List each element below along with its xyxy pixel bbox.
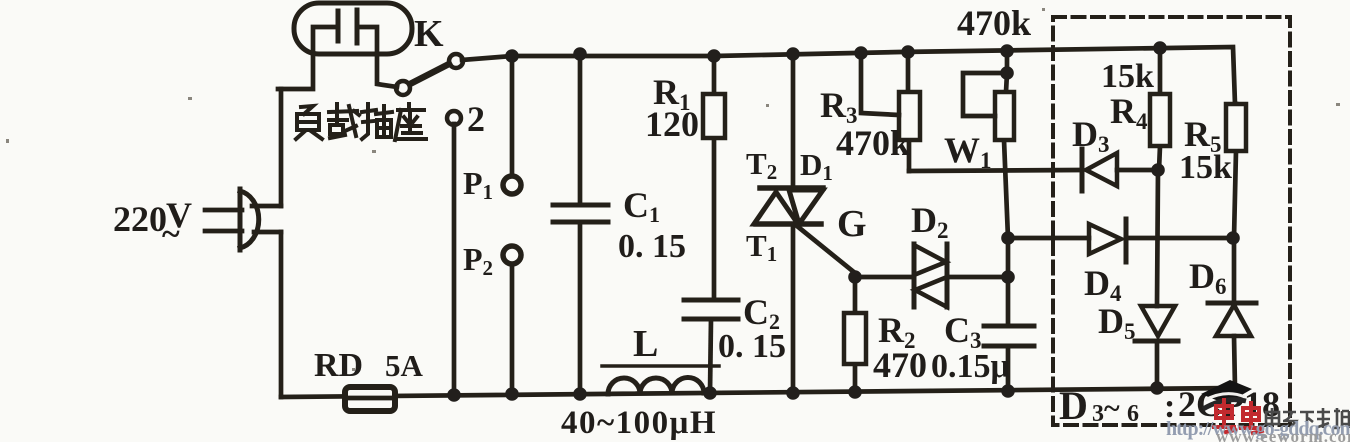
svg-text:5A: 5A (385, 348, 424, 383)
wire: left vertical from socket elbow to plug and plug to bottom bus (279, 89, 284, 397)
watermark logo (black cap) (1201, 380, 1252, 409)
junction R1 top (707, 49, 721, 63)
node D4/R5 (1226, 231, 1240, 245)
junction triac D1 bottom (786, 386, 800, 400)
diode D5 (1135, 306, 1178, 388)
svg-text:220: 220 (113, 199, 167, 239)
svg-text:0. 15: 0. 15 (618, 228, 686, 265)
triac D1 (754, 54, 823, 393)
junction D5 bottom (1150, 381, 1164, 395)
char 插 (362, 104, 392, 139)
resistor R2 (844, 277, 866, 392)
junction P2 / bottom bus (505, 387, 519, 401)
diode D6 (1208, 303, 1256, 388)
wire: R3 wiper tap (861, 53, 899, 115)
svg-text:3: 3 (1092, 401, 1104, 427)
wire: R3 bottom to D3 (909, 170, 1079, 171)
diac D2 (914, 244, 947, 307)
potentiometer W1 (995, 51, 1014, 238)
wire: C3 node down through C3 (1006, 238, 1011, 391)
wire: W1 wiper loop (963, 73, 1007, 116)
wire: P1 drop (510, 56, 515, 176)
svg-text:470k: 470k (836, 123, 910, 163)
svg-text:RD: RD (314, 347, 363, 384)
L underline (602, 364, 719, 368)
junction R3 wiper tap (854, 46, 868, 60)
P1 terminal (503, 176, 521, 194)
capacitor C1 (553, 54, 608, 394)
potentiometer R3 (899, 52, 920, 171)
wire: gate of D1 to R2 node (797, 226, 855, 273)
svg-text:L: L (633, 323, 658, 365)
svg-text:~: ~ (1104, 392, 1120, 425)
svg-text:15k: 15k (1101, 58, 1154, 95)
diode D3 (1082, 149, 1153, 191)
svg-text:2: 2 (467, 99, 485, 139)
wire: R5 to D6 (1232, 238, 1237, 303)
svg-text:470: 470 (873, 345, 927, 385)
junction C2 bottom (703, 386, 717, 400)
inductor L coil (608, 378, 704, 394)
node W1/D4 (1001, 231, 1015, 245)
wire: top bus from switch to dashed box right, down to R5 (462, 47, 1235, 104)
svg-text:~: ~ (162, 216, 180, 253)
svg-text:15k: 15k (1179, 149, 1232, 186)
svg-text:470k: 470k (957, 3, 1031, 43)
junction C1 bottom (573, 387, 587, 401)
junction R2 bottom (848, 385, 862, 399)
text 负载插座 (simulated glyphs) (296, 104, 426, 140)
junction W1 top (1000, 44, 1014, 58)
dashed box (1053, 17, 1290, 425)
resistor R5 (1226, 104, 1246, 238)
junction W1 wiper tie (1000, 66, 1014, 80)
switch K fixed contact (396, 81, 410, 95)
capacitor C3 (984, 326, 1034, 346)
node D2/C3 (1001, 270, 1015, 284)
switch K arm (410, 64, 449, 84)
watermark 电子下载站 (gray, simulated glyphs) (1266, 408, 1349, 428)
svg-text:G: G (837, 203, 867, 245)
wire: D3/R4 node down to D5 (1157, 170, 1158, 306)
socket contact bars (338, 10, 357, 43)
fuse RD (345, 387, 395, 411)
svg-text:0.15μ: 0.15μ (931, 348, 1010, 385)
wire: R2 node to diac D2 (855, 275, 914, 280)
wire: contact 2 down to bottom bus (452, 124, 457, 395)
node D3/R4 (1151, 163, 1165, 177)
wire: P2 down to bottom bus (510, 264, 515, 394)
svg-text:D: D (1059, 383, 1088, 428)
svg-text:6: 6 (1127, 401, 1139, 427)
svg-text:0. 15: 0. 15 (718, 328, 786, 365)
node G drive (R2/D2) (848, 270, 862, 284)
capacitor C2 (684, 300, 738, 393)
wire: bottom bus (281, 388, 1235, 397)
svg-text:K: K (414, 13, 444, 55)
svg-text:40~100μH: 40~100μH (561, 405, 717, 441)
junction R3 top (901, 45, 915, 59)
watermark 虫虫 (red, simulated glyphs) (1214, 400, 1262, 433)
char 座 (395, 104, 426, 140)
resistor R1 (703, 55, 725, 300)
char 载 (329, 104, 359, 138)
junction C1 top (573, 47, 587, 61)
diode D4 (1089, 219, 1233, 262)
resistor R4 (1150, 48, 1170, 170)
junction contact-2 / bottom bus (447, 388, 461, 402)
contact 2 circle (447, 111, 461, 125)
char 负 (296, 106, 322, 139)
wire: C3 node to D4 (1008, 236, 1089, 241)
junction R4 top (1153, 41, 1167, 55)
wire: diac D2 to C3 node (947, 275, 1008, 280)
plug 220V (205, 189, 281, 250)
switch K moving contact (449, 54, 463, 68)
junction triac D1 top (786, 47, 800, 61)
P2 terminal (503, 246, 521, 264)
svg-text:www.eeworm.com: www.eeworm.com (1216, 427, 1350, 442)
junction C3 bottom (1001, 384, 1015, 398)
svg-text:120: 120 (645, 104, 699, 144)
wire: socket left lead (278, 27, 338, 89)
junction P1 column / top bus (505, 49, 519, 63)
socket (负载插座) outline (294, 3, 412, 54)
wire: socket right lead (357, 27, 397, 87)
